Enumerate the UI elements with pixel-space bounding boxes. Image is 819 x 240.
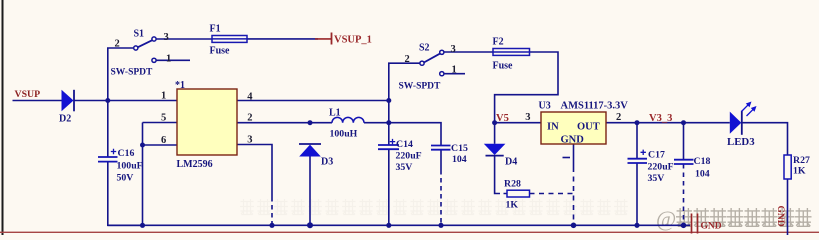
svg-text:F1: F1 — [210, 24, 221, 35]
power port GND rotated at R27 bottom — [775, 206, 785, 227]
capacitor C17 — [628, 150, 648, 163]
svg-text:SW-SPDT: SW-SPDT — [111, 68, 154, 78]
svg-text:R27: R27 — [793, 155, 810, 166]
wire F1 to VSUP_1 port — [247, 38, 318, 40]
op-amp U1 equivalent: regulator LM2596 — [177, 89, 237, 155]
LED3 — [730, 102, 757, 135]
wire C15 dashed to rail — [440, 170, 442, 224]
node pin5/6 junction — [140, 143, 145, 148]
node V3_3 junctions — [635, 120, 640, 125]
wire LM2596 pin6 — [143, 144, 178, 146]
watermark faint band bottom center — [240, 199, 628, 215]
svg-text:5: 5 — [161, 113, 166, 124]
wire U3 GND dashed to rail — [573, 167, 575, 224]
svg-text:1K: 1K — [793, 166, 806, 177]
svg-text:VSUP: VSUP — [15, 89, 41, 100]
wire R28 dashed to gnd column — [530, 193, 574, 195]
svg-text:L1: L1 — [329, 108, 341, 119]
wire S2 pin1 stub — [444, 73, 465, 75]
svg-text:100uF: 100uF — [117, 161, 143, 172]
svg-text:V3_3: V3_3 — [649, 113, 672, 124]
svg-text:1: 1 — [161, 91, 166, 102]
fuse F1 — [212, 36, 247, 43]
svg-text:@: @ — [656, 206, 676, 231]
wire V5 to U3 IN — [495, 122, 541, 124]
rail junctions — [140, 223, 145, 228]
wire C14 bottom to rail — [388, 149, 390, 225]
svg-text:GND: GND — [701, 222, 722, 232]
wire D4 to R28 — [495, 156, 496, 194]
svg-text:LED3: LED3 — [727, 136, 755, 148]
svg-text:1K: 1K — [506, 200, 519, 211]
wire C16 top — [107, 101, 109, 158]
capacitor C18 — [674, 160, 694, 164]
svg-text:GND: GND — [775, 206, 785, 227]
svg-text:*1: *1 — [175, 80, 185, 91]
svg-text:C18: C18 — [694, 156, 711, 167]
svg-text:3: 3 — [451, 44, 456, 55]
capacitor C15 — [431, 146, 451, 150]
svg-text:3: 3 — [247, 135, 252, 146]
inductor L1 — [332, 117, 364, 122]
watermark bottom right @juejin — [656, 206, 812, 231]
diode D3 — [299, 144, 321, 157]
wire node B to C15 — [389, 123, 441, 146]
sheet border bottom red line — [0, 232, 819, 233]
node B junctions — [386, 98, 391, 103]
svg-text:GND: GND — [561, 135, 585, 146]
node D3/L1 junction — [308, 120, 313, 125]
switch S2 — [420, 50, 444, 76]
wire S2 pin3 to F2 — [444, 51, 493, 53]
svg-text:50V: 50V — [117, 173, 134, 184]
svg-text:104: 104 — [695, 169, 710, 180]
svg-text:3: 3 — [164, 32, 169, 43]
wire LM2596 pin5 — [143, 122, 178, 124]
wire LM2596 pin4 feedback — [237, 100, 389, 102]
svg-text:S1: S1 — [134, 29, 145, 40]
svg-text:U3: U3 — [539, 101, 551, 112]
svg-text:4: 4 — [247, 92, 253, 103]
svg-text:LM2596: LM2596 — [177, 159, 213, 170]
svg-text:SW-SPDT: SW-SPDT — [399, 82, 442, 92]
svg-text:R28: R28 — [504, 179, 521, 190]
svg-text:Fuse: Fuse — [210, 46, 231, 57]
wire LM2596 pin3 — [237, 145, 272, 198]
svg-text:1: 1 — [166, 54, 171, 65]
svg-text:2: 2 — [247, 113, 252, 124]
wire C17 bottom to rail — [636, 163, 638, 225]
wire S1 pin1 stub — [157, 59, 191, 61]
svg-text:100uH: 100uH — [330, 129, 358, 140]
wire C17 top — [636, 123, 638, 159]
stray dash mark — [563, 157, 571, 159]
wire LM2596 pin2 output — [237, 122, 310, 124]
wire pin3 dashed to rail — [271, 197, 273, 224]
wire R27 down to edge — [787, 179, 789, 235]
wire C15 bottom — [440, 150, 442, 171]
power port VSUP_1 — [315, 33, 332, 45]
svg-text:VSUP_1: VSUP_1 — [334, 35, 372, 46]
wire node to L1 — [310, 122, 332, 124]
wire pin5/6 tie down to rail — [142, 123, 144, 226]
svg-text:1: 1 — [452, 65, 457, 76]
ground rail — [108, 224, 690, 226]
svg-text:6: 6 — [161, 135, 166, 146]
wire D3 anode down to rail — [309, 157, 311, 226]
node V5 junction — [492, 120, 497, 125]
wire C18 top — [683, 123, 685, 160]
svg-text:OUT: OUT — [577, 122, 600, 133]
svg-text:2: 2 — [115, 39, 120, 50]
svg-text:104: 104 — [452, 154, 467, 165]
capacitor C16 — [98, 149, 118, 162]
power port GND at rail end — [692, 214, 698, 234]
wire VSUP to D2 — [13, 100, 62, 102]
switch S1 — [134, 37, 156, 63]
wire L1 to node B — [364, 122, 389, 124]
node A junction — [105, 98, 110, 103]
wire node B vertical S2 feed — [389, 63, 420, 122]
capacitor C14 — [378, 139, 399, 149]
sheet border left — [2, 0, 4, 235]
wire dashes into R28 — [496, 193, 507, 195]
wire C18 dashed to rail — [683, 164, 685, 224]
regulator U3 AMS1117 — [541, 112, 606, 144]
svg-text:C16: C16 — [118, 148, 135, 159]
wire node A up to S1 pin2 — [108, 48, 134, 101]
svg-text:220uF: 220uF — [396, 151, 422, 162]
fuse F2 — [493, 49, 530, 56]
svg-text:35V: 35V — [648, 173, 665, 184]
wire D2 to LM2596 pin1 — [74, 100, 177, 102]
svg-text:C15: C15 — [451, 143, 468, 154]
svg-text:3: 3 — [525, 112, 530, 123]
svg-text:D4: D4 — [505, 157, 517, 168]
wire C16 bottom to ground rail — [108, 162, 143, 226]
resistor R28 — [507, 190, 530, 197]
wire V5 down to D4 — [494, 123, 496, 144]
svg-text:S2: S2 — [419, 43, 430, 54]
svg-text:C14: C14 — [396, 139, 413, 150]
wire U3 OUT to V3_3 rail — [606, 122, 730, 124]
svg-text:35V: 35V — [396, 162, 413, 173]
wire LED3 to R27 — [742, 123, 787, 155]
svg-text:V5: V5 — [496, 113, 509, 124]
svg-text:IN: IN — [547, 122, 559, 133]
svg-text:Fuse: Fuse — [493, 61, 514, 72]
resistor R27 — [784, 155, 791, 179]
svg-text:D2: D2 — [59, 114, 71, 125]
svg-text:220uF: 220uF — [648, 162, 674, 173]
svg-text:F2: F2 — [493, 37, 504, 48]
svg-text:C17: C17 — [648, 150, 665, 161]
wire C14 top — [388, 123, 390, 145]
wire F2 to V5 node — [495, 52, 558, 123]
svg-text:AMS1117-3.3V: AMS1117-3.3V — [561, 101, 629, 112]
diode D4 — [484, 144, 506, 156]
svg-text:2: 2 — [405, 54, 410, 65]
wire U3 GND pin down — [573, 144, 575, 167]
diode D2 — [62, 90, 75, 112]
svg-text:2: 2 — [616, 112, 621, 123]
svg-text:D3: D3 — [321, 157, 333, 168]
wire S1 pin3 to F1 — [157, 38, 213, 40]
